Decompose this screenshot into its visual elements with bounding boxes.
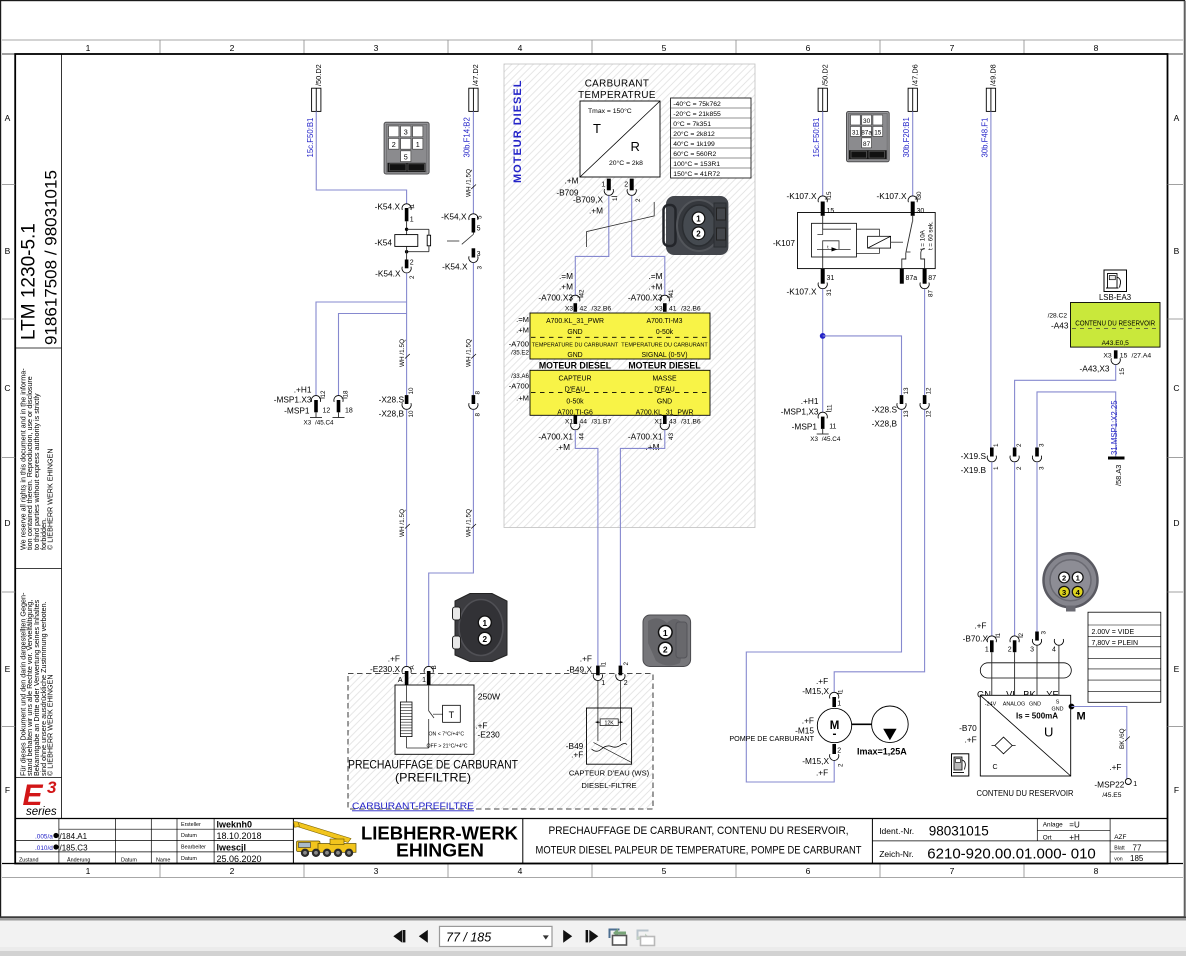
svg-text:150°C = 41R72: 150°C = 41R72 — [673, 170, 720, 178]
svg-text:31.MSP1:X2.25: 31.MSP1:X2.25 — [1110, 400, 1119, 455]
svg-text:AZF: AZF — [1114, 834, 1126, 841]
svg-text:.+F: .+F — [974, 621, 986, 631]
svg-text:POMPE DE CARBURANT: POMPE DE CARBURANT — [729, 734, 814, 743]
svg-text:20°C = 2k812: 20°C = 2k812 — [673, 130, 715, 138]
svg-text:-K54.X: -K54.X — [375, 269, 401, 279]
svg-text:42: 42 — [580, 306, 588, 313]
svg-text:MASSE: MASSE — [652, 375, 677, 382]
svg-text:5: 5 — [662, 43, 667, 53]
svg-text:3: 3 — [477, 251, 481, 258]
svg-text:.+M: .+M — [645, 442, 659, 452]
svg-text:6210-920.00.01.000- 010: 6210-920.00.01.000- 010 — [927, 846, 1095, 863]
svg-text:0-50k: 0-50k — [566, 399, 584, 406]
svg-text:1: 1 — [483, 619, 488, 628]
svg-text:10: 10 — [408, 410, 415, 418]
svg-text:.010/d: .010/d — [35, 845, 53, 852]
svg-text:CARBURANT-PREFILTRE: CARBURANT-PREFILTRE — [352, 801, 474, 812]
svg-text:15: 15 — [874, 130, 882, 137]
connector K54.X pin 3 — [472, 248, 476, 257]
svg-text:87: 87 — [928, 289, 935, 297]
connector K107.X pin 31 — [821, 269, 825, 284]
hatched block MOTEUR DIESEL — [504, 64, 755, 528]
svg-text:-K107: -K107 — [773, 238, 796, 248]
svg-text:S: S — [1056, 700, 1060, 706]
svg-text:8: 8 — [475, 391, 482, 395]
svg-text:TEMPERATURE DU CARBURANT: TEMPERATURE DU CARBURANT — [621, 342, 708, 348]
svg-text:GND: GND — [567, 352, 582, 359]
svg-text:2: 2 — [409, 275, 416, 279]
svg-text:Name: Name — [156, 857, 170, 863]
svg-text:41: 41 — [669, 306, 677, 313]
svg-text:15: 15 — [1119, 367, 1126, 375]
svg-text:10: 10 — [408, 387, 415, 395]
wire A43.X3:15 to X19:2 — [1015, 365, 1116, 448]
svg-text:8: 8 — [475, 413, 482, 417]
svg-text:3: 3 — [477, 266, 484, 270]
svg-text:-A700.X3: -A700.X3 — [538, 293, 573, 303]
title block grid — [59, 828, 294, 830]
resistance table — [671, 98, 751, 178]
svg-text:F: F — [1174, 785, 1179, 795]
svg-text:PRECHAUFFAGE DE CARBURANT, CON: PRECHAUFFAGE DE CARBURANT, CONTENU DU RE… — [549, 825, 849, 837]
toolbar next view icon disabled — [637, 931, 655, 946]
svg-text:/45.E5: /45.E5 — [1102, 792, 1121, 799]
svg-text:1: 1 — [416, 140, 420, 149]
svg-text:-E230: -E230 — [478, 730, 501, 740]
svg-text:30: 30 — [917, 208, 925, 215]
svg-text:/45.C4: /45.C4 — [822, 436, 841, 443]
svg-text:-20°C = 21k855: -20°C = 21k855 — [673, 110, 721, 118]
svg-text:2: 2 — [696, 230, 701, 239]
svg-text:MOTEUR DIESEL: MOTEUR DIESEL — [628, 360, 701, 370]
svg-text:D'EAU: D'EAU — [654, 387, 674, 394]
svg-text:-A700.X1: -A700.X1 — [628, 432, 663, 442]
svg-text:-A43: -A43 — [1051, 321, 1069, 331]
svg-text:6: 6 — [806, 866, 811, 876]
svg-text:GND: GND — [1029, 702, 1041, 708]
svg-text:.+F: .+F — [388, 654, 400, 664]
resistor 12K — [600, 719, 618, 726]
connector photo E230 plug — [453, 594, 508, 662]
svg-text:E: E — [1174, 664, 1180, 674]
svg-text:.=M: .=M — [559, 271, 573, 281]
svg-text:CAPTEUR: CAPTEUR — [559, 375, 592, 382]
svg-text:Datum: Datum — [181, 856, 197, 862]
svg-text:CONTENU DU RESERVOIR: CONTENU DU RESERVOIR — [1075, 318, 1155, 327]
svg-text:OFF > 21°C/+4°C: OFF > 21°C/+4°C — [427, 743, 468, 749]
fuel sender diamond symbol — [995, 737, 1012, 754]
svg-text:GND: GND — [657, 399, 672, 406]
svg-text:-B49.X: -B49.X — [567, 665, 593, 675]
svg-text:18.10.2018: 18.10.2018 — [217, 831, 262, 841]
svg-text:/47.D6: /47.D6 — [910, 64, 919, 86]
svg-text:5: 5 — [662, 866, 667, 876]
relay K107 box — [798, 213, 936, 269]
svg-text:100°C = 153R1: 100°C = 153R1 — [673, 160, 720, 168]
svg-text:WH /1.5Q: WH /1.5Q — [465, 509, 472, 537]
svg-text:0-50k: 0-50k — [656, 329, 674, 336]
leader line to connector photo — [587, 202, 655, 247]
svg-text:/28.C2: /28.C2 — [1048, 313, 1068, 320]
svg-text:87: 87 — [863, 141, 871, 148]
svg-text:A700.TI-G6: A700.TI-G6 — [557, 409, 593, 416]
svg-text:T: T — [593, 121, 601, 136]
toolbar previous view icon — [610, 929, 627, 946]
wire K54.X:3 down to X28 pin 8 — [472, 263, 474, 395]
sensor B709 characteristic box — [580, 101, 660, 177]
svg-text:.+F: .+F — [964, 735, 976, 745]
svg-text:U: U — [1044, 725, 1053, 740]
dashed box CARBURANT-PREFILTRE with hatch — [348, 674, 653, 810]
svg-text:I = 10A: I = 10A — [919, 229, 926, 250]
svg-text:/45.C4: /45.C4 — [315, 420, 334, 427]
coupling to pump — [852, 723, 872, 725]
svg-text:1: 1 — [837, 701, 841, 708]
svg-text:1: 1 — [601, 182, 605, 189]
svg-text:.+F: .+F — [1109, 762, 1121, 772]
svg-text:1: 1 — [663, 628, 668, 638]
svg-text:-E230.X: -E230.X — [370, 664, 400, 674]
svg-text:E: E — [5, 664, 11, 674]
wire fuse F14 to K54.X:5 — [472, 111, 474, 213]
svg-text:-K54,X: -K54,X — [441, 212, 467, 222]
water sensor B49 box — [597, 681, 599, 741]
svg-text:-B709,X: -B709,X — [573, 195, 603, 205]
suppression resistor across K54 coil — [407, 228, 429, 230]
svg-text:2: 2 — [624, 182, 628, 189]
svg-text:-X19.S: -X19.S — [961, 451, 987, 461]
connector photo K54 relay socket — [384, 122, 429, 174]
svg-text:-MSP1: -MSP1 — [284, 406, 310, 416]
svg-text:-M15,X: -M15,X — [802, 686, 829, 696]
svg-text:Imax=1,25A: Imax=1,25A — [857, 747, 907, 757]
green box CONTENU DU RESERVOIR — [1071, 303, 1161, 348]
svg-text:Datum: Datum — [181, 833, 197, 839]
toolbar page number box — [440, 926, 553, 946]
svg-text:© LIEBHERR WERK EHINGEN: © LIEBHERR WERK EHINGEN — [46, 674, 55, 776]
svg-text:SIGNAL (0-5V): SIGNAL (0-5V) — [641, 352, 687, 359]
toolbar first page button — [393, 930, 402, 943]
svg-text:2: 2 — [1016, 466, 1023, 470]
svg-text:DIESEL-FILTRE: DIESEL-FILTRE — [581, 781, 636, 790]
fuse F48 — [986, 88, 995, 111]
svg-text:1: 1 — [86, 43, 91, 53]
svg-text:/27.A4: /27.A4 — [1132, 353, 1152, 360]
svg-text:3: 3 — [1038, 466, 1045, 470]
svg-text:A700.KL_31_PWR: A700.KL_31_PWR — [636, 409, 694, 416]
svg-text:87a: 87a — [906, 275, 918, 282]
svg-text:2: 2 — [1008, 647, 1012, 654]
svg-text:40°C = 1k199: 40°C = 1k199 — [673, 140, 715, 148]
wires through oval to B70 box — [991, 652, 993, 695]
cable bundle oval — [980, 663, 1071, 678]
svg-text:/184.A1: /184.A1 — [60, 832, 88, 841]
svg-text:0°C = 7k351: 0°C = 7k351 — [673, 120, 711, 128]
svg-text:-24V: -24V — [985, 702, 997, 708]
svg-text:© LIEBHERR WERK EHINGEN: © LIEBHERR WERK EHINGEN — [46, 448, 55, 550]
svg-text:.005/a: .005/a — [35, 833, 53, 840]
svg-text:/50.D2: /50.D2 — [820, 64, 829, 86]
svg-text:11: 11 — [827, 404, 834, 411]
level sender B70 box — [980, 695, 1070, 776]
pump symbol — [872, 706, 909, 743]
svg-text:-X28,B: -X28,B — [872, 419, 898, 429]
svg-text:.+M: .+M — [516, 394, 529, 403]
svg-text:15c.F50:B1: 15c.F50:B1 — [306, 118, 315, 158]
svg-text:-A700.X3: -A700.X3 — [628, 293, 663, 303]
svg-text:GND: GND — [567, 329, 582, 336]
connector photo K107 relay socket — [847, 112, 890, 162]
svg-text:lweknh0: lweknh0 — [217, 820, 253, 830]
svg-text:t = 60 sek.: t = 60 sek. — [928, 221, 935, 250]
pin B70.X 4 — [1054, 639, 1063, 645]
svg-text:M: M — [1077, 711, 1086, 723]
svg-text:2.00V = VIDE: 2.00V = VIDE — [1092, 629, 1135, 636]
svg-text:1: 1 — [86, 866, 91, 876]
svg-text:31: 31 — [827, 275, 835, 282]
svg-text:15: 15 — [1120, 353, 1128, 360]
svg-text:77: 77 — [1133, 843, 1142, 852]
svg-text:4: 4 — [1052, 647, 1056, 654]
svg-text:WH /1.5Q: WH /1.5Q — [399, 509, 406, 537]
svg-text:TEMPERATRUE: TEMPERATRUE — [578, 90, 656, 101]
svg-text:.+M: .+M — [589, 206, 603, 216]
svg-text:20°C = 2k8: 20°C = 2k8 — [609, 159, 643, 167]
svg-text:/31.B6: /31.B6 — [681, 419, 701, 426]
svg-text:CONTENU DU RESERVOIR: CONTENU DU RESERVOIR — [977, 788, 1074, 798]
svg-text:Zeich-Nr.: Zeich-Nr. — [879, 849, 913, 859]
svg-text:/50.D2: /50.D2 — [314, 64, 323, 86]
svg-text:2: 2 — [230, 43, 235, 53]
svg-text:.+H1: .+H1 — [801, 396, 819, 406]
svg-text:6: 6 — [806, 43, 811, 53]
svg-text:.+M: .+M — [648, 282, 662, 292]
bottom column strip — [2, 863, 1183, 865]
toolbar last page button — [586, 930, 589, 942]
svg-text:ON < 7°C/+4°C: ON < 7°C/+4°C — [429, 732, 465, 738]
voltage table VIDE/PLEIN — [1088, 612, 1161, 702]
wire fuse F48 to X19:1 — [990, 111, 992, 447]
fuse F50 top-left — [312, 88, 321, 111]
svg-text:WH /1.5Q: WH /1.5Q — [399, 339, 406, 367]
heater E230 box — [395, 685, 474, 754]
svg-text:LSB-EA3: LSB-EA3 — [1099, 293, 1131, 302]
svg-text:30b.F48.F1: 30b.F48.F1 — [980, 118, 989, 158]
thermostat switch in E230 — [428, 685, 430, 711]
svg-text:/58.A3: /58.A3 — [1114, 465, 1123, 486]
wire B709:2 to A700.X3:41 — [632, 196, 665, 296]
svg-text:Zustand: Zustand — [19, 857, 38, 863]
svg-text:2: 2 — [624, 680, 628, 687]
svg-text:X1: X1 — [565, 419, 574, 426]
svg-text:60°C = 560R2: 60°C = 560R2 — [673, 150, 716, 158]
svg-text:Blatt: Blatt — [1114, 846, 1125, 852]
svg-text:1: 1 — [985, 647, 989, 654]
svg-text:Anlage: Anlage — [1043, 822, 1063, 829]
svg-text:/47.D2: /47.D2 — [471, 64, 480, 86]
wire K54.X:2 branch to MSP1 and X28 — [406, 273, 408, 395]
svg-text:WH /1.5Q: WH /1.5Q — [465, 169, 472, 197]
svg-text:2: 2 — [483, 635, 488, 644]
top column strip — [2, 39, 1183, 41]
svg-text:30b.F20:B1: 30b.F20:B1 — [902, 117, 911, 157]
svg-text:3: 3 — [1041, 631, 1048, 635]
svg-text:D: D — [4, 518, 10, 528]
svg-text:/185.C3: /185.C3 — [60, 844, 89, 853]
left column dividers — [61, 54, 63, 819]
svg-text:1: 1 — [696, 215, 701, 224]
wire X28:13 to M15.X:2 — [746, 410, 901, 782]
svg-text:2: 2 — [410, 260, 414, 267]
svg-text:A700.TI-M3: A700.TI-M3 — [647, 318, 683, 325]
svg-text:42: 42 — [579, 289, 586, 297]
svg-text:2: 2 — [230, 866, 235, 876]
svg-text:3: 3 — [1030, 647, 1034, 654]
svg-text:4: 4 — [518, 43, 523, 53]
svg-text:-K107.X: -K107.X — [787, 287, 817, 297]
toolbar background — [0, 918, 1186, 920]
svg-text:WH /1.5Q: WH /1.5Q — [465, 339, 472, 367]
svg-text:41: 41 — [668, 289, 675, 297]
svg-text:lwescjl: lwescjl — [217, 842, 247, 852]
svg-text:1: 1 — [1133, 781, 1137, 788]
svg-text:TEMPERATURE DU CARBURANT: TEMPERATURE DU CARBURANT — [532, 342, 619, 348]
svg-text:-X28.S: -X28.S — [872, 405, 898, 415]
svg-text:15c.F50:B1: 15c.F50:B1 — [812, 118, 821, 158]
wire K107.X:87 to X28:12 — [924, 289, 926, 395]
svg-text:-K107.X: -K107.X — [877, 191, 907, 201]
water level wave symbol — [592, 744, 628, 752]
svg-text:2: 2 — [1018, 632, 1025, 636]
svg-text:/31.B7: /31.B7 — [592, 419, 612, 426]
svg-text:.+M: .+M — [559, 282, 573, 292]
connector K54.X pin 2 — [405, 260, 409, 269]
svg-text:7: 7 — [950, 866, 955, 876]
svg-text:12: 12 — [926, 410, 933, 418]
svg-text:31: 31 — [826, 288, 833, 296]
svg-text:1: 1 — [612, 197, 619, 201]
timer module inside K107 — [812, 223, 857, 257]
Liebherr logo crane — [294, 822, 357, 853]
svg-text:X3: X3 — [810, 436, 818, 443]
svg-text:C: C — [4, 383, 10, 393]
svg-text:15: 15 — [826, 191, 833, 199]
svg-text:R: R — [631, 139, 640, 154]
wire X28:12 to M15.X:1 — [834, 410, 924, 693]
svg-text:11: 11 — [829, 424, 836, 431]
svg-text:.+F: .+F — [802, 716, 814, 726]
svg-text:5: 5 — [404, 153, 408, 162]
svg-text:(PREFILTRE): (PREFILTRE) — [395, 770, 471, 784]
svg-text:/32.B6: /32.B6 — [592, 306, 612, 313]
svg-text:ANALOG: ANALOG — [1003, 702, 1025, 708]
svg-text:18: 18 — [342, 390, 349, 398]
svg-text:F: F — [5, 785, 10, 795]
svg-text:3: 3 — [374, 43, 379, 53]
svg-text:Bearbeiter: Bearbeiter — [181, 845, 206, 851]
svg-text:BK /6Q: BK /6Q — [1119, 728, 1126, 749]
svg-text:Ort: Ort — [1043, 834, 1052, 841]
svg-text:PRECHAUFFAGE DE CARBURANT: PRECHAUFFAGE DE CARBURANT — [348, 757, 518, 771]
svg-text:EHINGEN: EHINGEN — [396, 840, 484, 861]
svg-text:2: 2 — [1016, 443, 1023, 447]
svg-text:77 / 185: 77 / 185 — [446, 930, 491, 944]
yellow signal box 1 — [530, 313, 710, 359]
svg-text:31: 31 — [852, 130, 860, 137]
M node and wire to MSP22 — [1069, 704, 1075, 710]
svg-text:MOTEUR DIESEL: MOTEUR DIESEL — [539, 360, 612, 370]
svg-text:CARBURANT: CARBURANT — [585, 79, 650, 90]
svg-text:15: 15 — [827, 208, 835, 215]
svg-text:30: 30 — [863, 118, 871, 125]
svg-text:1: 1 — [601, 680, 605, 687]
wire K107.X:31 to MSP1.X3:11 with junction — [822, 289, 824, 412]
svg-text:B: B — [431, 665, 438, 669]
svg-text:2: 2 — [837, 763, 844, 767]
svg-text:.=M: .=M — [648, 271, 662, 281]
svg-text:Datum: Datum — [121, 857, 137, 863]
wire A700.X1:43 to B49.X:2 — [620, 430, 664, 666]
svg-text:/32.B6: /32.B6 — [681, 306, 701, 313]
svg-text:A700.KL_31_PWR: A700.KL_31_PWR — [546, 318, 604, 325]
svg-text:B: B — [5, 246, 11, 256]
svg-text:2: 2 — [663, 645, 668, 655]
svg-text:C: C — [1173, 383, 1179, 393]
svg-text:7: 7 — [950, 43, 955, 53]
pin 87a — [900, 269, 904, 284]
connector photo B49 plug — [643, 615, 691, 667]
svg-text:B: B — [1174, 246, 1180, 256]
svg-text:D'EAU: D'EAU — [565, 387, 585, 394]
svg-text:.+F: .+F — [816, 768, 828, 778]
svg-text:X1: X1 — [654, 419, 663, 426]
svg-text:44: 44 — [579, 432, 586, 440]
svg-text:-B70.X: -B70.X — [963, 634, 989, 644]
connector M15.X pin 2 — [832, 744, 836, 754]
svg-text:-: - — [833, 727, 837, 741]
fuse F50 right — [818, 88, 827, 111]
svg-text:/49.D8: /49.D8 — [989, 64, 998, 86]
svg-text:-K54.X: -K54.X — [442, 262, 468, 272]
relay contact in K107 — [912, 216, 914, 222]
svg-text:250W: 250W — [478, 692, 501, 702]
svg-text:-X19.B: -X19.B — [961, 465, 987, 475]
T box thermostat — [443, 705, 461, 722]
svg-text:-B70: -B70 — [959, 723, 977, 733]
svg-text:44: 44 — [580, 419, 588, 426]
svg-text:3: 3 — [47, 778, 57, 797]
svg-text:A: A — [5, 113, 11, 123]
wire junction to X28:13 — [823, 336, 902, 395]
svg-text:3: 3 — [374, 866, 379, 876]
svg-text:1: 1 — [993, 443, 1000, 447]
svg-text:2: 2 — [392, 140, 396, 149]
svg-text:-K54: -K54 — [374, 238, 392, 248]
svg-text:Tmax = 150°C: Tmax = 150°C — [588, 107, 632, 115]
svg-text:.+F: .+F — [571, 750, 583, 760]
svg-text:-MSP1: -MSP1 — [792, 422, 818, 432]
svg-text:1: 1 — [410, 217, 414, 224]
pin 87 — [923, 269, 927, 284]
svg-text:2: 2 — [623, 662, 630, 666]
svg-text:-MSP1,X3: -MSP1,X3 — [781, 407, 819, 417]
toolbar previous page button — [419, 930, 428, 943]
svg-text:Ersteller: Ersteller — [181, 822, 201, 828]
connector A700.X3 pin 41 — [660, 295, 669, 301]
svg-text:8: 8 — [1094, 866, 1099, 876]
svg-text:-X28.S: -X28.S — [379, 395, 405, 405]
svg-text:MOTEUR DIESEL PALPEUR DE TEMPE: MOTEUR DIESEL PALPEUR DE TEMPERATURE, PO… — [536, 845, 862, 857]
